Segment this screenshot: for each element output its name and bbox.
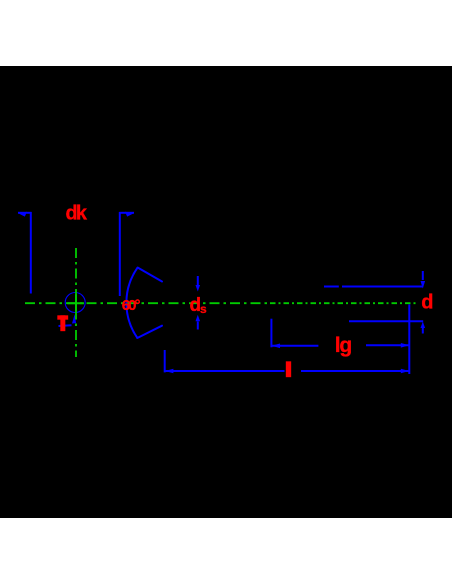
- vertical centerline of front view (dash-dot): [75, 248, 77, 357]
- screw head cone bottom edge: [137, 326, 162, 338]
- dimension l line left part with arrow: [165, 369, 285, 374]
- dimension lg line left part with arrow: [272, 344, 319, 349]
- dimension dk right extension line: [119, 212, 121, 296]
- screw head dome arc: [126, 268, 137, 339]
- svg-text:d: d: [190, 295, 201, 316]
- label l: [286, 362, 291, 378]
- screw head cone top edge: [138, 268, 162, 282]
- dimension dk right arrow: [119, 212, 134, 217]
- svg-text:lg: lg: [335, 334, 352, 357]
- dimension d bottom arrow: [421, 322, 426, 334]
- label T: [58, 316, 69, 332]
- dimension d top extension line: [324, 286, 423, 288]
- dimension dk left extension line: [30, 212, 32, 294]
- dimension lg line right part with arrow: [366, 343, 409, 348]
- svg-text:dk: dk: [66, 203, 88, 225]
- black image band: [0, 66, 452, 518]
- horizontal center axis (dash-dot): [25, 302, 268, 304]
- right extension line for lg and l: [408, 304, 410, 374]
- svg-text:60°: 60°: [122, 297, 141, 314]
- center cross solid horizontal: [68, 302, 85, 304]
- center cross solid vertical: [75, 295, 77, 311]
- front view small circle: [65, 293, 85, 313]
- T leader line with arrow: [59, 314, 77, 326]
- dimension ds top arrow: [196, 276, 201, 292]
- dimension l left extension line: [164, 350, 166, 372]
- dimension l line right part with arrow: [301, 369, 409, 374]
- dimension ds bottom arrow: [196, 315, 201, 330]
- svg-text:d: d: [421, 292, 433, 314]
- dimension lg left extension line: [270, 319, 272, 348]
- dimension dk left arrow: [18, 212, 32, 217]
- dimension d top arrow: [421, 271, 426, 289]
- dimension d bottom extension line: [349, 320, 423, 322]
- svg-text:s: s: [200, 302, 207, 316]
